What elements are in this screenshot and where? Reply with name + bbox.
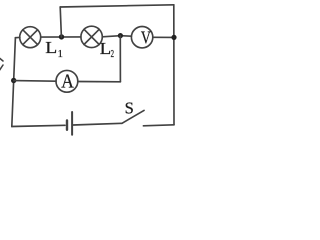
svg-text:1: 1 xyxy=(58,49,63,60)
wire ammeter riser xyxy=(119,36,121,82)
lamp L1 xyxy=(20,27,41,48)
svg-text:V: V xyxy=(141,28,151,48)
switch S blade (open) xyxy=(122,110,144,123)
wire switch contact to bottom-right corner xyxy=(143,125,174,126)
svg-text:L: L xyxy=(45,38,57,57)
svg-text:S: S xyxy=(125,99,134,118)
lamp L2 xyxy=(81,26,102,47)
wire left vertical of main loop xyxy=(12,38,16,127)
wire bypass vertical up from node xyxy=(60,7,61,37)
wire battery to switch pivot xyxy=(73,123,122,125)
wire L1 to L2 xyxy=(41,36,81,38)
svg-text:L: L xyxy=(100,39,112,58)
wire node to ammeter xyxy=(14,80,56,83)
wire top-left corner to L1 xyxy=(15,36,20,38)
wire bottom left xyxy=(12,125,65,126)
wire voltmeter to right vertical xyxy=(153,36,174,38)
wire right vertical xyxy=(173,5,175,125)
svg-text:2: 2 xyxy=(111,49,114,60)
svg-text:A: A xyxy=(61,70,74,92)
label L2 xyxy=(100,39,114,60)
label K (cut-off character at left image edge) xyxy=(0,57,3,72)
node junction dot between L1 and L2 xyxy=(59,34,64,39)
voltmeter V xyxy=(131,27,152,48)
wire L2 to voltmeter xyxy=(102,36,131,37)
battery negative plate (short) xyxy=(66,120,68,129)
node junction dot at right vertical xyxy=(171,35,176,40)
label L1 xyxy=(45,38,63,60)
wire ammeter to riser xyxy=(78,81,121,83)
node junction dot on left vertical (ammeter branch) xyxy=(11,78,16,83)
battery positive plate (long) xyxy=(71,112,73,135)
node junction dot above ammeter riser xyxy=(118,33,123,38)
wire top horizontal xyxy=(60,5,174,7)
ammeter A xyxy=(56,70,78,92)
